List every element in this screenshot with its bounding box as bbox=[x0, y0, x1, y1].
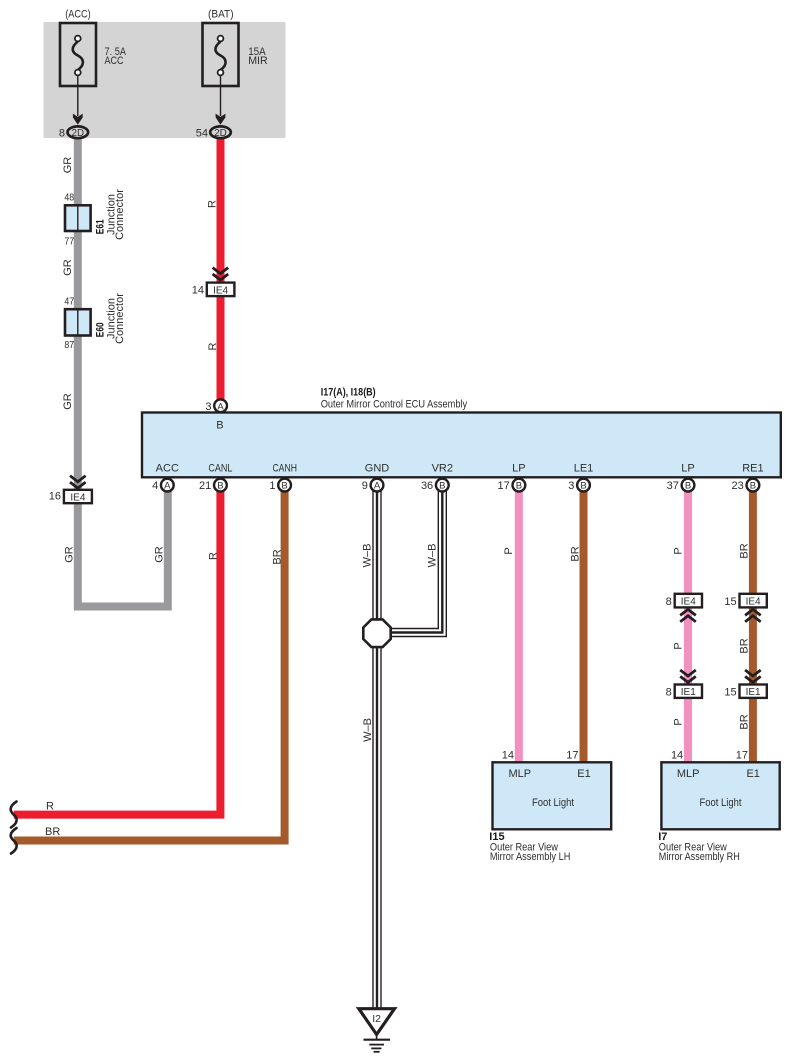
svg-text:LP: LP bbox=[681, 462, 694, 474]
connector 15 IE4 bbox=[724, 594, 766, 608]
svg-text:MIR: MIR bbox=[248, 55, 268, 67]
svg-text:36: 36 bbox=[421, 480, 433, 492]
svg-text:Mirror Assembly LH: Mirror Assembly LH bbox=[490, 851, 571, 863]
svg-text:P: P bbox=[672, 547, 684, 554]
pin 23 B bbox=[732, 479, 760, 492]
wire BR from ECU pin 1 to left edge bbox=[14, 489, 285, 841]
svg-text:B: B bbox=[217, 481, 223, 492]
ground I2 bbox=[359, 1009, 395, 1052]
svg-text:14: 14 bbox=[192, 284, 204, 296]
pin 3 B bbox=[568, 479, 590, 492]
svg-text:E1: E1 bbox=[577, 768, 590, 780]
pin 17 B bbox=[498, 479, 526, 492]
svg-text:IE4: IE4 bbox=[70, 493, 85, 504]
svg-text:(BAT): (BAT) bbox=[208, 9, 234, 21]
fuse F2 MIR 15A bbox=[203, 9, 268, 86]
svg-text:Outer Mirror Control ECU Assem: Outer Mirror Control ECU Assembly bbox=[321, 399, 468, 411]
connector 2D pin 54 bbox=[196, 75, 231, 139]
svg-text:B: B bbox=[685, 481, 691, 492]
svg-text:MLP: MLP bbox=[508, 768, 531, 780]
svg-text:BR: BR bbox=[570, 546, 582, 561]
wire GR from fuse ACC through E61 E60 to ECU pin 4 bbox=[74, 134, 168, 611]
junction connector E61 bbox=[64, 189, 126, 248]
connector 8 IE1 bbox=[666, 685, 702, 699]
svg-text:E61: E61 bbox=[94, 219, 106, 234]
svg-text:9: 9 bbox=[362, 480, 368, 492]
svg-text:15: 15 bbox=[724, 596, 736, 608]
wire P from ECU pin 17 to foot light LH bbox=[515, 489, 523, 762]
svg-text:17: 17 bbox=[498, 480, 510, 492]
svg-text:17: 17 bbox=[736, 750, 748, 762]
connector arrow out of 8 IE4 bbox=[680, 609, 696, 621]
svg-text:IE4: IE4 bbox=[681, 597, 696, 608]
fuse F1 ACC 7.5A bbox=[60, 9, 127, 86]
svg-text:Foot Light: Foot Light bbox=[700, 797, 742, 809]
svg-text:P: P bbox=[503, 547, 515, 554]
svg-text:87: 87 bbox=[64, 339, 74, 351]
svg-text:B: B bbox=[439, 481, 445, 492]
svg-text:B: B bbox=[516, 481, 522, 492]
wire R from ECU pin 21 to left edge bbox=[14, 489, 221, 815]
svg-text:BR: BR bbox=[739, 638, 751, 653]
svg-text:3: 3 bbox=[205, 401, 211, 413]
svg-text:8: 8 bbox=[59, 127, 65, 139]
svg-text:54: 54 bbox=[196, 127, 208, 139]
connector arrow into 15 IE1 bbox=[745, 670, 761, 682]
svg-text:P: P bbox=[672, 642, 684, 649]
svg-text:E1: E1 bbox=[746, 768, 759, 780]
svg-text:W–B: W–B bbox=[427, 544, 439, 568]
svg-text:BR: BR bbox=[272, 549, 284, 564]
svg-text:37: 37 bbox=[667, 480, 679, 492]
svg-text:B: B bbox=[281, 481, 287, 492]
svg-text:2D: 2D bbox=[72, 128, 85, 139]
pin 9 A bbox=[362, 479, 384, 492]
svg-text:LP: LP bbox=[512, 462, 525, 474]
svg-text:ACC: ACC bbox=[156, 462, 179, 474]
svg-text:4: 4 bbox=[152, 480, 158, 492]
svg-text:RE1: RE1 bbox=[742, 462, 763, 474]
foot light I15 LH bbox=[489, 750, 611, 863]
svg-text:I17(A), I18(B): I17(A), I18(B) bbox=[321, 387, 376, 399]
power source box bbox=[44, 22, 286, 138]
wire BR from ECU pin 23 RE1 to foot light RH bbox=[749, 489, 757, 762]
svg-text:17: 17 bbox=[566, 750, 578, 762]
svg-text:B: B bbox=[216, 420, 223, 432]
ECU assembly I17(A) I18(B) box bbox=[142, 387, 781, 478]
svg-text:Mirror Assembly RH: Mirror Assembly RH bbox=[659, 851, 740, 863]
wire BR from ECU pin 3 LE1 to foot light LH bbox=[580, 489, 588, 762]
svg-text:BR: BR bbox=[739, 543, 751, 558]
junction connector E60 bbox=[64, 293, 126, 351]
foot light I7 RH bbox=[658, 750, 780, 863]
svg-text:3: 3 bbox=[568, 480, 574, 492]
pin 36 B bbox=[421, 479, 449, 492]
svg-text:2D: 2D bbox=[214, 128, 227, 139]
svg-text:GR: GR bbox=[62, 393, 74, 410]
svg-text:GND: GND bbox=[365, 462, 390, 474]
connector arrow into 8 IE1 bbox=[680, 670, 696, 682]
svg-text:GR: GR bbox=[62, 259, 74, 276]
svg-text:23: 23 bbox=[732, 480, 744, 492]
svg-text:E60: E60 bbox=[94, 322, 106, 337]
connector 14 IE4 bbox=[192, 283, 235, 297]
wire W-B from ECU pin 36 VR2 to splice bbox=[385, 489, 442, 633]
svg-text:VR2: VR2 bbox=[432, 462, 453, 474]
svg-text:P: P bbox=[672, 718, 684, 725]
svg-text:IE1: IE1 bbox=[746, 687, 761, 698]
wire end curl R bbox=[11, 802, 17, 828]
svg-text:ACC: ACC bbox=[105, 55, 124, 67]
svg-text:8: 8 bbox=[666, 596, 672, 608]
splice octagon I (W-B junction) bbox=[363, 619, 390, 647]
svg-text:GR: GR bbox=[154, 546, 166, 563]
svg-text:16: 16 bbox=[49, 490, 61, 502]
connector arrow out of 15 IE4 bbox=[745, 609, 761, 621]
svg-text:Connector: Connector bbox=[114, 293, 126, 344]
svg-text:48: 48 bbox=[64, 191, 74, 203]
svg-text:IE4: IE4 bbox=[213, 285, 228, 296]
svg-text:8: 8 bbox=[666, 686, 672, 698]
connector arrow into 16 IE4 bbox=[70, 476, 86, 488]
svg-text:BR: BR bbox=[45, 826, 60, 838]
svg-text:W–B: W–B bbox=[362, 718, 374, 742]
svg-text:CANL: CANL bbox=[208, 462, 232, 474]
svg-text:A: A bbox=[374, 481, 381, 492]
svg-text:IE1: IE1 bbox=[681, 687, 696, 698]
svg-text:BR: BR bbox=[739, 714, 751, 729]
svg-text:B: B bbox=[580, 481, 586, 492]
svg-text:A: A bbox=[164, 481, 171, 492]
pin 3 A (ECU top) bbox=[205, 399, 227, 412]
pin 21 B bbox=[199, 479, 227, 492]
svg-text:R: R bbox=[208, 552, 220, 560]
pin 37 B bbox=[667, 479, 695, 492]
svg-text:14: 14 bbox=[502, 750, 514, 762]
svg-text:77: 77 bbox=[64, 235, 74, 247]
pin 4 A bbox=[152, 479, 174, 492]
svg-text:IE4: IE4 bbox=[746, 597, 761, 608]
svg-text:47: 47 bbox=[64, 296, 74, 308]
svg-text:GR: GR bbox=[62, 157, 74, 174]
svg-text:R: R bbox=[207, 200, 219, 208]
svg-text:I2: I2 bbox=[372, 1013, 381, 1025]
connector 16 IE4 bbox=[49, 490, 92, 504]
svg-text:R: R bbox=[46, 801, 54, 813]
svg-text:GR: GR bbox=[63, 546, 75, 563]
svg-text:15: 15 bbox=[724, 686, 736, 698]
svg-text:21: 21 bbox=[199, 480, 211, 492]
wire W-B from ECU pin 9 GND to ground I2 bbox=[372, 489, 381, 1008]
svg-text:R: R bbox=[207, 342, 219, 350]
svg-text:(ACC): (ACC) bbox=[65, 9, 91, 21]
wire R from fuse BAT to ECU pin 3 bbox=[217, 134, 225, 402]
connector 8 IE4 bbox=[666, 594, 702, 608]
connector arrow into 14 IE4 bbox=[213, 268, 229, 280]
svg-text:W–B: W–B bbox=[361, 544, 373, 568]
pin 1 B bbox=[269, 479, 291, 492]
svg-text:1: 1 bbox=[269, 480, 275, 492]
svg-text:Connector: Connector bbox=[114, 189, 126, 240]
connector 2D pin 8 bbox=[59, 75, 88, 139]
svg-text:Foot Light: Foot Light bbox=[532, 797, 574, 809]
svg-text:CANH: CANH bbox=[272, 462, 297, 474]
svg-text:A: A bbox=[217, 401, 224, 412]
svg-text:MLP: MLP bbox=[677, 768, 700, 780]
connector 15 IE1 bbox=[724, 685, 766, 699]
wire P from ECU pin 37 to foot light RH bbox=[684, 489, 692, 762]
svg-text:LE1: LE1 bbox=[574, 462, 594, 474]
svg-text:14: 14 bbox=[671, 750, 683, 762]
svg-text:B: B bbox=[750, 481, 756, 492]
wire end curl BR bbox=[11, 828, 17, 854]
